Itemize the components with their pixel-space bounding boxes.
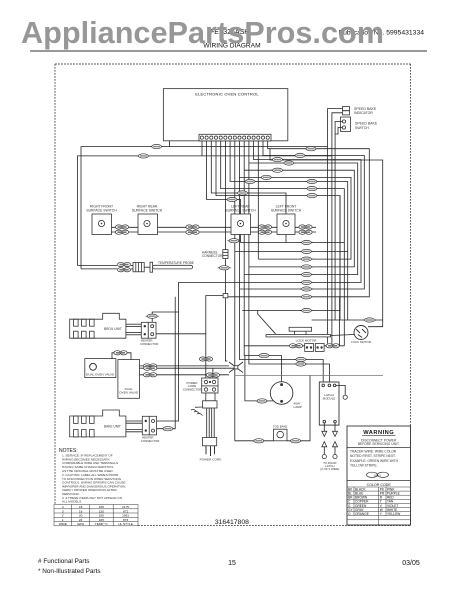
wire latch to TOD xyxy=(336,385,345,394)
svg-text:GN-Y: GN-Y xyxy=(374,473,382,477)
svg-text:OVEN VALVE: OVEN VALVE xyxy=(119,391,138,395)
connector on B8 xyxy=(300,240,313,244)
connector on B6 xyxy=(300,257,313,261)
connector below harness block xyxy=(218,266,231,270)
tracer wire example symbol xyxy=(367,472,389,477)
connector on valve output 1 xyxy=(143,364,156,368)
wire pin12 to right bend xyxy=(157,141,361,421)
connector pair right of S5 xyxy=(299,225,312,234)
wire pin5 to right bend xyxy=(221,141,345,243)
connector on A4 xyxy=(282,161,295,165)
svg-text:LAMP: LAMP xyxy=(294,405,302,409)
TOD circle xyxy=(343,395,347,399)
bake heater connector xyxy=(142,416,156,435)
svg-text:TEMP °C: TEMP °C xyxy=(95,522,109,526)
wire pin3 to left front switch top xyxy=(211,141,286,214)
plug arrows up xyxy=(322,442,327,447)
switch chain wires xyxy=(112,227,317,232)
svg-text:YELLOW: YELLOW xyxy=(387,512,400,516)
svg-text:CONNECTOR: CONNECTOR xyxy=(140,342,159,346)
svg-text:ALL MODELS.: ALL MODELS. xyxy=(62,500,82,504)
wire pin11 to right bend xyxy=(244,141,358,275)
connector on A5 xyxy=(271,168,284,172)
connector pair between S3 S4 xyxy=(186,225,199,234)
connector on B2 xyxy=(300,287,313,291)
header rule xyxy=(30,50,427,52)
svg-text:INDICATOR: INDICATOR xyxy=(354,111,373,115)
svg-text:POWER CORD: POWER CORD xyxy=(200,458,222,462)
connector above power block xyxy=(206,373,219,377)
wire node left branch to power cord xyxy=(206,296,226,378)
wire pin10 to right bend xyxy=(244,141,354,267)
connector on A1 xyxy=(304,147,317,151)
broil heater connector xyxy=(141,322,156,338)
svg-text:ELECTRONIC OVEN CONTROL: ELECTRONIC OVEN CONTROL xyxy=(195,92,259,97)
connector on broil riser xyxy=(146,314,159,318)
latch plug circles xyxy=(322,455,326,459)
connector on second left wire xyxy=(137,154,150,158)
svg-text:(2 OF 3 WIRE): (2 OF 3 WIRE) xyxy=(320,467,339,471)
svg-text:316417808: 316417808 xyxy=(215,519,249,526)
svg-text:15: 15 xyxy=(228,560,236,567)
svg-text:DUAL OVEN VALVE: DUAL OVEN VALVE xyxy=(86,373,114,377)
wire C4 to latch module xyxy=(249,163,330,384)
schematic frame xyxy=(55,64,411,526)
plug arrows down xyxy=(322,431,327,436)
EOC connector strip P1 xyxy=(199,134,271,141)
connector below S4 xyxy=(227,239,240,243)
power cord end block xyxy=(203,438,217,446)
connector on latch feed C4 xyxy=(294,362,307,366)
svg-text:LOCK MOTOR: LOCK MOTOR xyxy=(296,338,318,342)
speed bake indicator DS1 xyxy=(343,107,350,115)
wire harness top: pins down bending right xyxy=(157,141,383,421)
wire pin14 to right bend xyxy=(240,141,365,289)
oven lamp xyxy=(270,382,293,405)
temperature probe row xyxy=(77,265,150,269)
svg-text:ORANGE: ORANGE xyxy=(355,512,369,516)
wire pin4 to right bend xyxy=(216,141,340,311)
svg-text:AWG: AWG xyxy=(77,522,85,526)
oven valve tall box xyxy=(118,360,140,399)
lock switch 2 xyxy=(315,344,324,352)
broil leads xyxy=(126,324,141,335)
left rear surface switch S4 xyxy=(231,214,251,235)
svg-text:TEMPERATURE PROBE: TEMPERATURE PROBE xyxy=(158,261,194,265)
electronic oven control U1 xyxy=(163,89,287,141)
diagonal wire into lock xyxy=(258,311,276,334)
right rear surface switch S3 xyxy=(138,214,158,235)
connector on valve loop xyxy=(114,351,127,355)
wire pin9 to right bend xyxy=(240,141,352,259)
broil element xyxy=(70,313,126,338)
svg-text:CONNECTOR: CONNECTOR xyxy=(202,254,223,258)
connector on A2 xyxy=(293,153,306,157)
connector on bake output xyxy=(161,427,174,431)
svg-text:TOD BAKE: TOD BAKE xyxy=(273,425,288,429)
svg-text:COLOR CODE: COLOR CODE xyxy=(367,483,392,487)
connector on A7 xyxy=(305,179,318,183)
extension of inner bundle verticals xyxy=(343,243,345,346)
connector on B4 xyxy=(300,273,313,277)
wire pin15 to right bend xyxy=(228,141,369,297)
bake leads xyxy=(126,421,142,432)
connector on B7 xyxy=(300,249,313,253)
wire B11 right outer to motor xyxy=(270,149,383,327)
power cord connector block xyxy=(202,378,218,393)
svg-text:NOTED FIRST, STRIPE NEXT.: NOTED FIRST, STRIPE NEXT. xyxy=(350,454,396,458)
connector left of thermal switch xyxy=(252,439,265,443)
wires lock switches xyxy=(244,196,348,346)
center long verticals xyxy=(206,141,330,441)
svg-text:SURFACE SWITCH: SURFACE SWITCH xyxy=(271,208,302,212)
wire S5 bottom drop xyxy=(285,235,287,243)
svg-text:# Functional Parts: # Functional Parts xyxy=(38,558,90,565)
svg-text:WIRE: WIRE xyxy=(59,522,67,526)
connector on power feed vertical xyxy=(199,357,212,361)
connector on valve output 3 xyxy=(143,373,156,377)
power cord body xyxy=(203,393,218,408)
svg-text:UL STYLE: UL STYLE xyxy=(118,522,133,526)
connector on A11 xyxy=(225,197,238,201)
wire pin2 to left rear switch top xyxy=(207,141,241,214)
junction node square xyxy=(223,294,228,298)
wire lock top feed xyxy=(312,319,383,321)
star junction X xyxy=(213,362,243,378)
bake element xyxy=(70,410,126,437)
left front surface switch S5 xyxy=(277,214,295,235)
strain hooks xyxy=(191,407,203,416)
connector on B9 xyxy=(300,308,313,312)
connector on A9 xyxy=(305,194,318,198)
wire gauge table xyxy=(54,505,138,526)
speed bake switch S1 xyxy=(341,117,351,131)
bake output wire xyxy=(157,297,176,429)
wire loop box1 to box2 xyxy=(112,353,234,375)
connector on A10 xyxy=(236,191,249,195)
oven light switch assembly xyxy=(85,359,116,378)
door lock assembly xyxy=(266,327,331,337)
long gray wire across latch area xyxy=(235,375,383,377)
power cord prongs xyxy=(206,446,215,456)
wires to speed bake xyxy=(328,109,343,346)
svg-text:CONNECTOR: CONNECTOR xyxy=(141,439,160,443)
svg-text:SURFACE SWITCH: SURFACE SWITCH xyxy=(86,208,117,212)
svg-text:YELLOW STRIPE.: YELLOW STRIPE. xyxy=(350,463,378,467)
connector right of thermal switch xyxy=(289,439,302,443)
connector left of lock switches xyxy=(289,344,302,348)
connector on lock feed xyxy=(363,318,376,322)
temperature probe RT1 xyxy=(150,262,193,272)
connector on B1 xyxy=(300,295,313,299)
svg-text:BAKE UNIT: BAKE UNIT xyxy=(104,425,121,429)
connector pair on probe row xyxy=(117,262,130,271)
svg-text:WARNING: WARNING xyxy=(363,430,394,436)
svg-text:EXAMPLE: GREEN WIRE WITH: EXAMPLE: GREEN WIRE WITH xyxy=(350,459,399,463)
wire C2 to latch module xyxy=(240,177,324,384)
connector on latch feed C2 xyxy=(294,357,307,361)
connector on valve output 2 xyxy=(144,366,157,370)
lamp loop wire xyxy=(245,356,274,401)
svg-text:03/05: 03/05 xyxy=(402,560,420,567)
connector on B3 xyxy=(300,280,313,284)
oven thermal switch TOD xyxy=(274,429,288,441)
svg-text:SURFACE SWITCH: SURFACE SWITCH xyxy=(225,208,256,212)
wire motor to plate xyxy=(331,335,355,336)
svg-text:* Non-Illustrated Parts: * Non-Illustrated Parts xyxy=(38,568,101,575)
svg-text:MODULE: MODULE xyxy=(323,397,336,401)
warning box xyxy=(347,426,411,525)
latch module xyxy=(319,382,339,425)
connector on lamp top wire xyxy=(257,354,270,358)
connector on top-left wire xyxy=(150,145,163,149)
svg-text:SWITCH: SWITCH xyxy=(355,126,369,130)
branch down from B1 into lock xyxy=(339,297,341,346)
connector on A8 xyxy=(305,187,318,191)
fuse block on probe row xyxy=(133,263,144,272)
harness connector block xyxy=(223,250,228,259)
latch module bottom wires xyxy=(324,423,335,455)
connector on A3 xyxy=(271,158,284,162)
connector pair between S4 S5 xyxy=(258,225,271,234)
connector on B5 xyxy=(300,265,313,269)
svg-text:WIRING DIAGRAM: WIRING DIAGRAM xyxy=(203,43,260,50)
lock switch 1 xyxy=(305,344,314,352)
wire left bus bend to probe xyxy=(77,264,117,266)
right front surface switch S2 xyxy=(92,214,112,235)
svg-text:BEFORE SERVICING UNIT.: BEFORE SERVICING UNIT. xyxy=(358,442,400,446)
wire left of latch down to thermal switch xyxy=(235,376,310,441)
svg-text:CONNECTOR: CONNECTOR xyxy=(183,387,202,391)
wire left top from EOC xyxy=(77,141,332,269)
power cord cable xyxy=(207,408,215,438)
svg-text:TRACER WIRE: WIRE COLOR: TRACER WIRE: WIRE COLOR xyxy=(350,450,397,454)
connector right of lock switches xyxy=(326,344,339,348)
svg-text:SPEED BAKE: SPEED BAKE xyxy=(355,122,378,126)
svg-text:BROIL UNIT: BROIL UNIT xyxy=(104,327,122,331)
connector on lamp loop xyxy=(255,399,268,403)
wire harness connector drop xyxy=(224,141,226,250)
svg-text:SURFACE SWITCH: SURFACE SWITCH xyxy=(132,208,163,212)
latch motor M1 xyxy=(354,326,368,340)
wire pin7 to right bend xyxy=(230,141,348,251)
connector on A6 xyxy=(260,175,273,179)
wire C1 center bus to bottom xyxy=(234,141,236,441)
wire pin13 drop xyxy=(257,141,259,259)
svg-text:LOCK MOTOR: LOCK MOTOR xyxy=(351,340,372,344)
wire C3 to oven lamp xyxy=(244,170,281,382)
broil riser wire xyxy=(152,312,206,334)
connector pair between S2 S3 xyxy=(115,225,128,234)
wire valve outputs xyxy=(140,365,230,367)
connector on A7 left xyxy=(243,179,256,183)
